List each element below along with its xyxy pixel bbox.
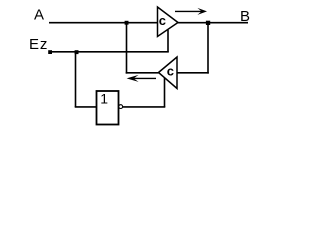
- svg-text:1: 1: [100, 91, 108, 107]
- svg-text:B: B: [240, 8, 250, 25]
- svg-text:Ez: Ez: [29, 36, 47, 53]
- svg-text:A: A: [34, 6, 44, 23]
- svg-text:c: c: [159, 13, 166, 28]
- svg-text:c: c: [167, 64, 174, 79]
